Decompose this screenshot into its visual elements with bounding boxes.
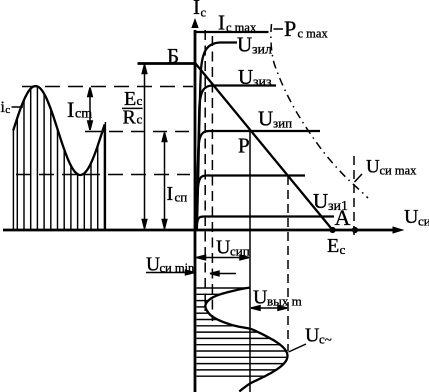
svg-text:U: U: [258, 107, 273, 131]
label P_c max: [284, 16, 328, 41]
svg-text:I: I: [218, 11, 225, 35]
svg-text:си: си: [418, 214, 429, 229]
arrow E_c/R_c (full height measure): [142, 65, 147, 229]
svg-text:c max: c max: [226, 21, 257, 35]
output voltage waveform U_c~: [205, 288, 287, 392]
svg-text:c: c: [137, 112, 143, 127]
svg-text:c~: c~: [319, 332, 332, 347]
svg-text:Б: Б: [167, 44, 179, 68]
arrow U_сип measure: [197, 255, 250, 260]
svg-text:U: U: [305, 325, 320, 347]
input signal waveform i_c: [13, 86, 105, 175]
svg-text:I: I: [193, 0, 200, 19]
wire: vertical through P down (U_сип level): [249, 130, 251, 392]
label i_c: [1, 99, 24, 116]
svg-text:U: U: [404, 206, 419, 228]
svg-text:P: P: [284, 16, 296, 41]
label E_c/R_c fraction: [122, 88, 143, 129]
hatching of input waveform: [17, 87, 104, 229]
label I_сп: [167, 183, 188, 205]
dashed level line through waveform peak (y=86.5): [22, 86, 193, 88]
label U_вых m: [253, 287, 302, 309]
dashed vertical U_си max: [353, 156, 355, 237]
label U_си: [404, 206, 429, 229]
dashed vertical at saturation knee 1: [204, 30, 206, 311]
wire: waveform right boundary: [104, 122, 106, 229]
load line Б-P-A-E_c: [196, 64, 333, 231]
output characteristic curve U_зил (top): [197, 43, 237, 231]
label I_c: [193, 0, 207, 20]
node U_си max dot: [352, 227, 358, 233]
arrow U_си min (outside arrows): [146, 270, 236, 276]
label E_c: [327, 235, 346, 257]
label U_сип: [216, 237, 250, 259]
output characteristic curve U_зи1 (bottom): [196, 217, 334, 231]
axis U_си (horizontal): [3, 226, 405, 233]
arrow I_cm (peak to quiescent): [88, 88, 93, 131]
arrow I_сп (quiescent current measure): [162, 133, 167, 229]
axis I_c (vertical): [191, 18, 198, 392]
label U_c~: [289, 325, 332, 353]
output characteristic curve U_зи3: [197, 86, 277, 231]
svg-text:E: E: [327, 235, 339, 257]
hatching of output waveform: [197, 288, 288, 376]
line Б (top of load line level): [138, 62, 197, 65]
label U_зип: [258, 107, 292, 131]
label U_зил: [237, 33, 272, 58]
svg-text:c: c: [5, 104, 10, 116]
label I_c max: [218, 11, 257, 35]
svg-text:c: c: [137, 93, 143, 108]
tick for P_c max: [274, 28, 284, 30]
svg-text:вых m: вых m: [267, 294, 302, 309]
svg-text:c: c: [201, 6, 207, 20]
svg-text:cm: cm: [75, 107, 92, 122]
svg-text:U: U: [253, 287, 268, 309]
svg-text:U: U: [216, 237, 231, 259]
svg-text:сип: сип: [230, 244, 250, 259]
svg-text:зил: зил: [252, 43, 272, 58]
label U_си min: [146, 255, 195, 276]
curve P_c max (dash-dot hyperbola): [271, 24, 368, 198]
output characteristic curve (unlabeled, 4th): [196, 176, 305, 231]
svg-text:I: I: [167, 183, 174, 205]
dashed level line through waveform trough (y=174.5): [16, 174, 190, 176]
svg-text:c max: c max: [298, 27, 329, 41]
label I_cm: [67, 97, 92, 122]
svg-text:зиз: зиз: [253, 75, 272, 90]
line I_c max level: [196, 31, 269, 33]
svg-text:I: I: [67, 97, 74, 122]
output characteristic curve U_зип (through P): [196, 131, 320, 230]
dashed vertical from load line to output peak (x=288): [287, 176, 289, 351]
dashed vertical at saturation knee 2 / U_си min: [211, 36, 213, 321]
svg-text:сп: сп: [175, 190, 188, 205]
svg-text:R: R: [123, 107, 137, 129]
label U_зи3: [238, 65, 272, 90]
label U_зи1: [313, 189, 348, 214]
label U_си max: [355, 157, 418, 183]
svg-text:c: c: [340, 242, 346, 257]
svg-text:U: U: [238, 65, 253, 89]
dashed quiescent level line (y=131.5): [85, 131, 104, 133]
svg-text:U: U: [237, 33, 252, 57]
node E_c dot: [330, 227, 336, 233]
svg-text:зип: зип: [273, 116, 292, 131]
svg-text:U: U: [366, 157, 380, 178]
svg-text:си max: си max: [380, 164, 418, 178]
svg-text:P: P: [238, 134, 250, 158]
wire: waveform left boundary: [12, 131, 14, 230]
arrow U_вых m measure: [251, 306, 287, 311]
svg-text:A: A: [335, 205, 351, 230]
